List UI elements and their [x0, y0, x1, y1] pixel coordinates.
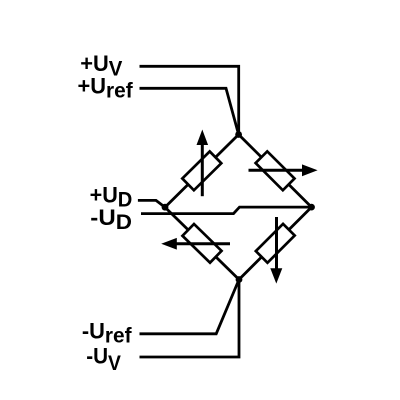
arrow left R4 — [161, 238, 230, 250]
wire +UD — [138, 200, 165, 207]
wire -UD — [141, 207, 312, 214]
wire +UV — [140, 66, 239, 134]
arrow up R1 — [197, 130, 209, 197]
wire bridge diamond — [165, 135, 312, 280]
label +UD — [90, 182, 133, 212]
label -UV — [86, 343, 121, 375]
label -UD — [90, 205, 132, 234]
wire +Uref — [140, 88, 239, 134]
label +Uref — [78, 73, 134, 102]
node right — [308, 204, 315, 211]
resistor R1 top-left — [182, 151, 221, 190]
node left — [162, 204, 169, 211]
node bottom — [236, 276, 243, 283]
arrow down R3 — [270, 217, 282, 284]
wire -Uref — [140, 280, 240, 334]
arrow right R2 — [249, 164, 318, 176]
node top — [235, 131, 242, 138]
label +UV — [80, 51, 122, 81]
svg-text:-UD: -UD — [90, 205, 132, 234]
resistor R2 top-right — [256, 151, 295, 190]
wire -UV — [140, 280, 240, 358]
label -Uref — [82, 318, 133, 347]
svg-text:+Uref: +Uref — [78, 73, 134, 102]
resistor R4 bottom-left — [182, 224, 221, 263]
resistor R3 bottom-right — [256, 224, 295, 263]
